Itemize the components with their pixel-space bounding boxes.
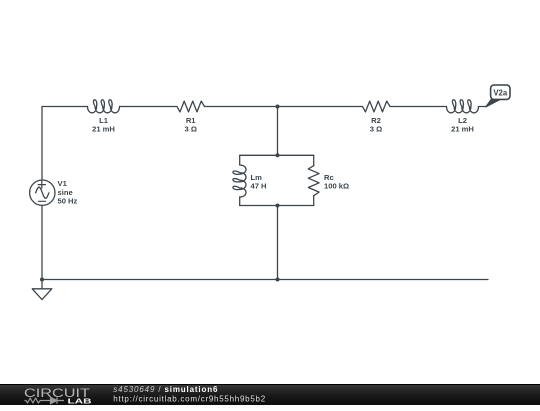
resistor R2 bbox=[363, 101, 391, 112]
inductor L1 bbox=[88, 100, 120, 113]
wire R1 to node bbox=[205, 106, 278, 108]
wire middle vertical top bbox=[277, 107, 279, 156]
wire middle vertical bottom bbox=[277, 206, 279, 280]
wire Rc top stub bbox=[313, 155, 315, 165]
wire node to R2 bbox=[278, 106, 363, 108]
svg-text:47 H: 47 H bbox=[251, 182, 267, 191]
wire Lm top stub bbox=[239, 155, 241, 165]
node dot ground bbox=[40, 278, 44, 282]
wire parallel bottom rail bbox=[240, 205, 314, 207]
wire Rc bottom stub bbox=[313, 196, 315, 206]
svg-text:3 Ω: 3 Ω bbox=[184, 125, 196, 134]
wire top-left corner: V1 to L1 bbox=[42, 107, 88, 180]
voltage source V1 circle bbox=[30, 180, 55, 205]
wire Lm bottom stub bbox=[239, 197, 241, 206]
svg-text:21 mH: 21 mH bbox=[92, 125, 115, 134]
svg-text:21 mH: 21 mH bbox=[451, 125, 474, 134]
wire parallel top rail bbox=[240, 154, 314, 156]
svg-text:s4530649 / simulation6: s4530649 / simulation6 bbox=[113, 385, 218, 394]
node dot top middle bbox=[276, 105, 280, 109]
V1 minus sign bbox=[38, 200, 45, 202]
V2a flag pointer bbox=[486, 98, 500, 107]
node dot parallel bottom bbox=[276, 204, 280, 208]
resistor R1 bbox=[177, 101, 205, 112]
wire L1 to R1 bbox=[120, 106, 178, 108]
inductor L2 bbox=[447, 100, 479, 113]
logo diode doodle bbox=[47, 397, 65, 403]
svg-text:3 Ω: 3 Ω bbox=[370, 125, 382, 134]
svg-text:http://circuitlab.com/cr9h55hh: http://circuitlab.com/cr9h55hh9b5b2 bbox=[113, 394, 266, 403]
V1 sine squiggle bbox=[36, 187, 49, 198]
wire V1 bottom to ground node bbox=[41, 206, 43, 280]
ground triangle bbox=[32, 289, 52, 300]
wire L2 to V2a flag bbox=[479, 106, 487, 108]
resistor Rc bbox=[308, 166, 319, 196]
svg-text:50 Hz: 50 Hz bbox=[58, 196, 78, 205]
wire bottom rail bbox=[42, 279, 488, 281]
node dot parallel top bbox=[276, 153, 280, 157]
inductor Lm bbox=[233, 165, 246, 197]
svg-text:V2a: V2a bbox=[493, 89, 508, 98]
node dot bottom middle bbox=[276, 278, 280, 282]
wire R2 to L2 bbox=[390, 106, 447, 108]
V2a flag box bbox=[491, 85, 510, 99]
ground stub bbox=[41, 280, 43, 289]
svg-text:LAB: LAB bbox=[68, 397, 93, 406]
svg-text:100 kΩ: 100 kΩ bbox=[324, 182, 349, 191]
V1 plus sign bbox=[38, 181, 45, 188]
logo resistor doodle bbox=[25, 398, 47, 403]
